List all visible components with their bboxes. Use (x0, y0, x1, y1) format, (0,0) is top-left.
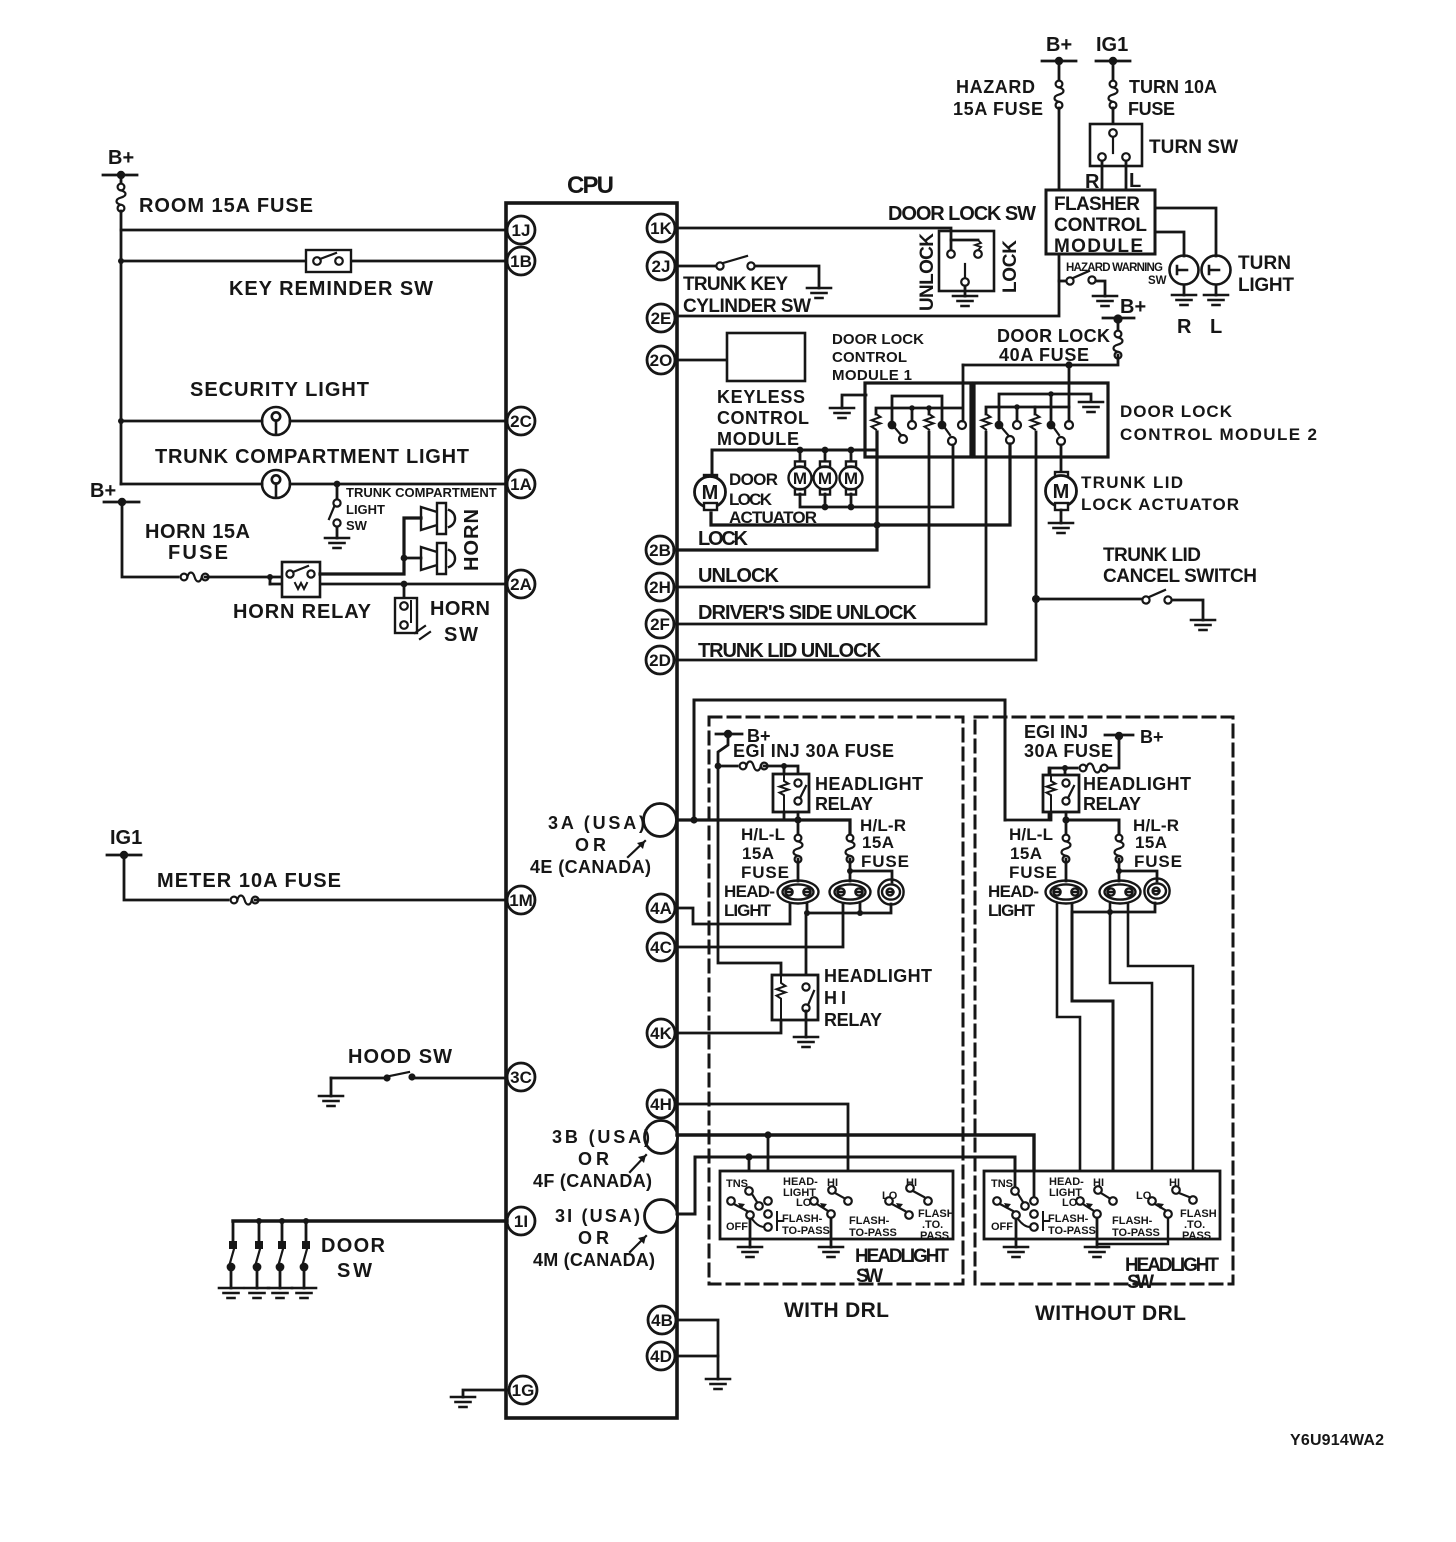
label FLASH-TO-PASS sw2 right (1180, 1208, 1217, 1242)
motor TRUNK LID LOCK ACTUATOR (1046, 472, 1077, 510)
headlight sw2 LO2 contact (1136, 1190, 1172, 1218)
label HEAD-LIGHT LO sw2 (1049, 1176, 1084, 1209)
connector circle 3B/4F (645, 1121, 678, 1154)
dashed box WITHOUT DRL (975, 717, 1233, 1284)
junction motor2 top (822, 447, 829, 454)
wire module2 rail A (999, 394, 1091, 420)
junction motor2 bottom (822, 504, 829, 511)
svg-text:OFF: OFF (991, 1221, 1013, 1233)
wire DRIVERS SIDE UNLOCK bus 2F (674, 432, 986, 624)
headlight sw2 HI2 contact (1169, 1177, 1197, 1204)
svg-text:4M (CANADA): 4M (CANADA) (533, 1250, 655, 1270)
svg-text:15A: 15A (1010, 844, 1042, 863)
svg-text:RELAY: RELAY (824, 1010, 882, 1030)
contact module2 feed x1069 (1065, 421, 1073, 429)
svg-text:HEADLIGHT: HEADLIGHT (815, 774, 923, 794)
node B+ door lock (1103, 296, 1146, 324)
motor door lock actuator 4 (840, 450, 863, 495)
svg-text:M: M (844, 469, 858, 488)
svg-text:DOOR LOCK SW: DOOR LOCK SW (888, 203, 1036, 225)
svg-text:FUSE: FUSE (1128, 99, 1175, 119)
svg-text:2C: 2C (510, 412, 532, 431)
fuse EGI INJ 30A box1 (718, 762, 768, 771)
relay HEADLIGHT RELAY box2 (1043, 774, 1191, 814)
ground headlight sw1 LO (819, 1247, 843, 1257)
svg-text:B+: B+ (1140, 727, 1164, 747)
junction horn2 branch (401, 555, 408, 562)
svg-text:EGI INJ: EGI INJ (1024, 722, 1088, 742)
svg-text:LO: LO (796, 1197, 812, 1209)
pin 2F (646, 610, 674, 638)
pin 1K (647, 214, 675, 242)
module DOOR LOCK CONTROL MODULE 1 box (865, 383, 971, 457)
svg-text:LIGHT: LIGHT (1238, 275, 1294, 296)
svg-text:IG1: IG1 (110, 827, 142, 849)
svg-text:1K: 1K (650, 219, 672, 238)
svg-text:L: L (1210, 316, 1222, 338)
svg-text:4A: 4A (650, 899, 672, 918)
label TURN LIGHT (1238, 253, 1294, 296)
svg-text:HOOD SW: HOOD SW (348, 1046, 452, 1068)
wire 1B branch (121, 260, 507, 263)
wire module2 rail B (986, 407, 1069, 414)
coil module2 relay2 (1031, 414, 1040, 430)
junction hi bus left box1 (804, 910, 810, 916)
wire sw2 LO2 stem to ground (1097, 1218, 1168, 1244)
wire sw1 LO ground stem (830, 1218, 833, 1247)
switch DOOR SW 2 (253, 1218, 263, 1288)
relay HORN RELAY (233, 562, 372, 623)
svg-text:HORN RELAY: HORN RELAY (233, 601, 372, 623)
pin 1B (507, 247, 535, 275)
wire module1 pin stub x929 (928, 408, 931, 414)
wire 3B tap to sw box1 (767, 1135, 770, 1197)
label 3A (USA) OR 4E (CANADA) (530, 813, 651, 877)
headlight sw1 HI contact (827, 1177, 852, 1205)
wire module1 rail A (892, 396, 942, 420)
svg-text:LOCK: LOCK (1000, 240, 1021, 293)
headlight lamp6 box2 (1144, 878, 1169, 903)
module KEYLESS CONTROL MODULE (717, 333, 809, 449)
svg-text:HEADLIGHT: HEADLIGHT (824, 966, 932, 986)
svg-text:SW: SW (1148, 275, 1167, 287)
junction trunk light sw tap (334, 481, 341, 488)
svg-text:DOOR LOCK: DOOR LOCK (832, 331, 924, 348)
wire 3A riser to top feed line (694, 700, 1005, 820)
svg-text:HAZARD: HAZARD (956, 77, 1035, 97)
svg-text:3C: 3C (510, 1068, 532, 1087)
wire module2 railA stub x1051 (1050, 394, 1053, 420)
wire 3I tap to sw box1 (748, 1157, 751, 1187)
svg-text:TRUNK LID UNLOCK: TRUNK LID UNLOCK (698, 640, 882, 662)
wire B+ jog to TNS rail (718, 734, 728, 766)
svg-text:TRUNK LID: TRUNK LID (1081, 473, 1183, 492)
wire 3I feed into sw2 TNS (1014, 1171, 1017, 1186)
pin 2J (647, 252, 675, 280)
pin 2O (647, 346, 675, 374)
wire hazard fuse to flasher (1058, 108, 1061, 190)
wire feed riser join box2 (1005, 768, 1049, 820)
svg-text:IG1: IG1 (1096, 34, 1128, 56)
svg-text:DOOR LOCK: DOOR LOCK (1120, 402, 1233, 421)
svg-text:LOCK: LOCK (698, 528, 749, 550)
pin 2B (646, 536, 674, 564)
label DOOR LOCK ACTUATOR (729, 470, 817, 527)
svg-text:TRUNK KEY: TRUNK KEY (683, 274, 788, 295)
connector circle 3I/4M (645, 1200, 678, 1233)
pin 4C (647, 933, 675, 961)
headlight sw2 HI contact (1093, 1177, 1117, 1205)
label 3I (USA) OR 4M (CANADA) (533, 1206, 655, 1270)
label DOOR LOCK CONTROL MODULE 2 (1120, 402, 1317, 444)
svg-text:2E: 2E (651, 309, 672, 328)
wire fuse to headlamp4 box2 (1065, 859, 1068, 881)
headlight sw2 TNS contact (991, 1178, 1029, 1210)
junction motor1 top (797, 447, 804, 454)
label FLASH-TO-PASS sw1 left (782, 1213, 830, 1237)
switch HORN SW (395, 584, 490, 646)
svg-text:FLASH-: FLASH- (782, 1213, 823, 1225)
pin 1I (507, 1207, 535, 1235)
svg-text:DOOR: DOOR (729, 470, 778, 489)
headlight sw1 pole column (752, 1197, 772, 1231)
junction module2 railA x1051 (1048, 391, 1054, 397)
wire 40A feed into module2 (1068, 365, 1071, 421)
pin 2D (646, 646, 674, 674)
wire sw1 TNS ground stem (749, 1219, 752, 1247)
svg-text:15A: 15A (862, 833, 894, 852)
svg-text:PASS: PASS (920, 1230, 949, 1242)
ground turn light R (1172, 295, 1196, 338)
wire 4B to ground (677, 1320, 718, 1379)
wire hi bus to hi relay box1 (805, 913, 808, 983)
connector circle 3A/4E (644, 804, 677, 837)
headlight sw1 OFF contact (726, 1197, 754, 1233)
wire relay outputs box2 (1051, 812, 1066, 838)
svg-text:EGI INJ 30A FUSE: EGI INJ 30A FUSE (733, 741, 894, 761)
switch HEADLIGHT SW box2 (984, 1171, 1220, 1239)
wire B+ down to fuse box2 (1104, 736, 1119, 768)
ground trunk compartment light sw (325, 538, 349, 548)
pin 2A (507, 570, 535, 598)
junction module2 railB x1017 (1014, 404, 1020, 410)
svg-text:FLASH-: FLASH- (1112, 1215, 1153, 1227)
junction trunk cancel tap (1032, 595, 1040, 603)
junction 3B tap box1 (764, 1131, 771, 1138)
pin 1M (507, 886, 535, 914)
headlight lamp5 box2 (1100, 881, 1141, 904)
svg-text:RELAY: RELAY (1083, 794, 1141, 814)
ground 1G (451, 1397, 475, 1407)
svg-text:3A (USA): 3A (USA) (548, 813, 645, 833)
svg-text:CANCEL SWITCH: CANCEL SWITCH (1103, 566, 1257, 587)
switch DOOR SW 3 (276, 1218, 286, 1288)
svg-text:H/L-L: H/L-L (741, 825, 785, 844)
ground trunk lid cancel switch (1191, 620, 1215, 630)
pin 4B (648, 1306, 676, 1334)
fuse HAZARD 15A FUSE (953, 61, 1064, 119)
junction 3I tap box1 (745, 1153, 752, 1160)
wire flasher to R turn light (1155, 232, 1184, 256)
svg-text:FUSE: FUSE (1134, 852, 1182, 871)
svg-text:4F (CANADA): 4F (CANADA) (533, 1171, 652, 1191)
label FLASH-TO-PASS sw2 left (1048, 1213, 1096, 1237)
wire module1 rail B (876, 408, 961, 414)
headlight lamp2 box1 (830, 881, 871, 904)
contact module1 feed x962 (958, 421, 966, 429)
wire 1K to door lock sw (677, 228, 951, 250)
node B+ box1 (716, 726, 771, 746)
wire 3B/4F bus (677, 1135, 1034, 1197)
svg-text:CONTROL: CONTROL (1054, 215, 1147, 236)
headlight sw2 pole column (1018, 1197, 1038, 1231)
svg-text:FLASH-: FLASH- (1048, 1213, 1089, 1225)
contact module1 relay2 (938, 421, 956, 445)
svg-text:TO-PASS: TO-PASS (782, 1225, 830, 1237)
svg-text:DOOR: DOOR (321, 1235, 386, 1257)
pin 3C (507, 1063, 535, 1091)
svg-text:15A: 15A (1135, 833, 1167, 852)
wire left vertical rail (120, 230, 123, 484)
svg-text:B+: B+ (90, 480, 116, 502)
wire 40A feed into module1 (962, 365, 965, 421)
wire fuse to headlight relay box1 (764, 766, 798, 779)
pin 1G (509, 1376, 537, 1404)
contact module2 relay2 (1047, 421, 1065, 445)
label DOOR SW (321, 1235, 386, 1282)
wire UNLOCK bus 2H (674, 432, 929, 587)
ground door sw 3 (268, 1288, 292, 1298)
motor door lock actuator 3 (814, 450, 837, 495)
wire motor top rail (712, 450, 876, 476)
svg-text:4H: 4H (650, 1095, 672, 1114)
coil module1 unlock relay (925, 414, 934, 430)
label HEADLIGHT SW box1 (855, 1246, 949, 1287)
svg-text:TURN 10A: TURN 10A (1129, 77, 1217, 97)
switch TRUNK COMPARTMENT LIGHT SW (329, 484, 497, 538)
node B+ box2 (1105, 727, 1164, 747)
headlight sw1 HI2 contact (906, 1177, 932, 1205)
svg-text:SECURITY LIGHT: SECURITY LIGHT (190, 379, 369, 401)
wire fuse to headlamp1 box1 (797, 859, 800, 881)
svg-text:TURN SW: TURN SW (1149, 137, 1238, 158)
svg-text:DRIVER'S SIDE UNLOCK: DRIVER'S SIDE UNLOCK (698, 602, 918, 624)
switch DOOR LOCK SW (888, 203, 1036, 296)
headlight lamp4 box2 (1046, 881, 1087, 904)
wire fuse to headlamp2 and 3 box1 (850, 859, 892, 882)
wire B+ to 1J (121, 211, 507, 230)
svg-text:2D: 2D (649, 651, 671, 670)
junction hi bus mid box1 (857, 910, 863, 916)
svg-text:1G: 1G (512, 1381, 535, 1400)
contact module2 pole x1017 (1013, 421, 1021, 429)
junction horn coil tap (267, 574, 273, 580)
svg-text:1I: 1I (514, 1212, 528, 1231)
wire 4H to headlight sw HI (677, 1104, 848, 1197)
svg-text:LIGHT: LIGHT (724, 901, 772, 920)
svg-text:HEADLIGHT: HEADLIGHT (855, 1246, 949, 1267)
wire turn sw R to flasher (1101, 161, 1104, 190)
svg-text:B+: B+ (108, 147, 134, 169)
wire TNS rail down (718, 766, 781, 975)
module DOOR LOCK CONTROL MODULE 2 box (974, 383, 1108, 457)
wire 1A trunk light (121, 483, 507, 486)
ground door lock sw (953, 296, 977, 306)
svg-text:MODULE: MODULE (717, 429, 799, 449)
wire fuse to headlamp5 and 6 box2 (1119, 859, 1157, 881)
node B+ top-left (103, 147, 137, 182)
wire fuse to relay feed box2 (1050, 768, 1077, 775)
svg-text:OFF: OFF (726, 1221, 748, 1233)
svg-text:LOCK ACTUATOR: LOCK ACTUATOR (1081, 495, 1239, 514)
svg-text:FUSE: FUSE (1009, 863, 1057, 882)
svg-text:TO-PASS: TO-PASS (849, 1227, 897, 1239)
svg-text:M: M (1053, 481, 1070, 503)
lamp SECURITY LIGHT (190, 379, 369, 435)
svg-text:1A: 1A (510, 475, 532, 494)
junction left rail 2C (118, 418, 124, 424)
wire sw2 TNS ground stem (1015, 1219, 1018, 1247)
svg-text:2A: 2A (510, 575, 532, 594)
pin 4D (647, 1342, 675, 1370)
wire fuse to 1M (255, 899, 507, 902)
ground turn light L (1204, 295, 1228, 338)
svg-text:M: M (793, 469, 807, 488)
svg-text:MODULE: MODULE (1054, 236, 1143, 257)
svg-text:HI: HI (824, 988, 846, 1008)
svg-text:TRUNK COMPARTMENT LIGHT: TRUNK COMPARTMENT LIGHT (155, 446, 469, 468)
svg-text:TNS: TNS (991, 1178, 1013, 1190)
svg-text:ROOM 15A FUSE: ROOM 15A FUSE (139, 195, 313, 217)
svg-text:CONTROL: CONTROL (717, 408, 809, 428)
headlight lamp1 box1 (778, 881, 819, 904)
svg-text:HORN: HORN (461, 509, 483, 571)
wire trunk actuator to ground (1060, 510, 1063, 523)
relay HEADLIGHT HI RELAY (772, 966, 932, 1030)
wire lamp5 low to sw LO2 box2 (1110, 904, 1152, 1197)
label DOOR LOCK CONTROL MODULE 1 (832, 331, 924, 384)
wire coil drop to 2A line (269, 577, 272, 584)
motor door lock actuator 2 (789, 450, 812, 495)
junction motor3 top (848, 447, 855, 454)
svg-text:SW: SW (444, 624, 478, 646)
switch DOOR SW 1 (227, 1221, 237, 1288)
module FLASHER CONTROL MODULE (1046, 190, 1155, 257)
wire lamp2 hi stub box1 (859, 904, 862, 913)
wire 4K to hi relay coil (677, 1020, 781, 1033)
junction motor3 bottom (848, 504, 855, 511)
turn light L (1202, 256, 1231, 285)
switch DOOR SW 4 (300, 1218, 310, 1288)
wire 4D join (677, 1355, 718, 1358)
switch TRUNK LID CANCEL SWITCH (1036, 545, 1257, 620)
svg-text:LIGHT: LIGHT (988, 901, 1036, 920)
label HEAD-LIGHT box1 (724, 882, 775, 920)
svg-text:SW: SW (1127, 1272, 1154, 1293)
fuse ROOM 15A FUSE (117, 184, 314, 217)
horn speaker 1 (421, 503, 455, 534)
svg-text:HORN 15A: HORN 15A (145, 521, 250, 543)
headlight sw1 TNS contact (726, 1178, 763, 1210)
junction relay coil tap box1 (781, 763, 787, 769)
wire 1G ground (463, 1390, 509, 1397)
junction module1 railB x912 (909, 405, 915, 411)
junction relay contact lamp bus box1 (794, 816, 801, 823)
fuse TURN 10A FUSE (1109, 61, 1218, 119)
svg-text:4B: 4B (651, 1311, 673, 1330)
wire sw2 LO ground stem (1096, 1218, 1099, 1247)
svg-text:1M: 1M (509, 891, 533, 910)
labels R L turn sw (1085, 170, 1141, 193)
svg-text:TO-PASS: TO-PASS (1048, 1225, 1096, 1237)
wire fuse to horn relay (205, 576, 289, 579)
wire L lamp to ground (1215, 285, 1218, 295)
ground module2 internal (1079, 402, 1103, 412)
pin 2E (647, 304, 675, 332)
label FLASH-TO-PASS sw2 mid (1112, 1215, 1160, 1239)
wire 40A fuse feed to modules (963, 355, 1118, 365)
node IG1 turn (1096, 34, 1130, 65)
svg-text:KEYLESS: KEYLESS (717, 387, 805, 407)
wire hi feed to sw HI box2 (1072, 912, 1113, 1197)
svg-text:METER 10A FUSE: METER 10A FUSE (157, 870, 341, 892)
wire coil stub box1 (783, 766, 786, 775)
svg-text:FLASHER: FLASHER (1054, 194, 1140, 215)
fuse DOOR LOCK 40A FUSE (997, 319, 1123, 365)
switch HOOD SW (331, 1046, 507, 1096)
fuse H/L-R 15A box2 (1115, 816, 1183, 871)
wire lamp feed bus box2 (1066, 820, 1119, 838)
svg-text:15A: 15A (742, 844, 774, 863)
wire 1I door switch bus (233, 1219, 507, 1222)
wire trunk actuator feed (1060, 445, 1063, 474)
wire relay to horns (320, 518, 421, 574)
pin 4H (647, 1090, 675, 1118)
wire IG1 to meter fuse (124, 855, 228, 900)
svg-text:SW: SW (337, 1260, 372, 1282)
wire 4C to headlamp2 low (677, 904, 843, 947)
svg-text:H/L-L: H/L-L (1009, 825, 1053, 844)
wire 2C security light (121, 420, 507, 423)
wire headlamp hi bus box1 (807, 904, 891, 913)
svg-text:UNLOCK: UNLOCK (698, 565, 780, 587)
wire turn fuse to turn sw (1112, 108, 1115, 129)
wire 2O to keyless module (677, 359, 727, 362)
svg-text:FLASH-: FLASH- (849, 1215, 890, 1227)
wire lamp4 low to sw LO box2 (1057, 904, 1080, 1197)
svg-text:HEAD-: HEAD- (724, 882, 775, 901)
svg-text:FUSE: FUSE (861, 852, 909, 871)
svg-text:CPU: CPU (567, 172, 614, 199)
wire horn2 branch (404, 557, 421, 560)
svg-text:CYLINDER SW: CYLINDER SW (683, 296, 811, 317)
svg-text:15A FUSE: 15A FUSE (953, 99, 1043, 119)
svg-text:CONTROL: CONTROL (832, 349, 907, 366)
ground door sw 2 (245, 1288, 269, 1298)
fuse HORN 15A FUSE (145, 521, 250, 582)
fuse H/L-R 15A box1 (846, 816, 910, 871)
svg-text:40A FUSE: 40A FUSE (999, 345, 1089, 365)
svg-text:4C: 4C (650, 938, 672, 957)
wire 3A/4E feed (677, 820, 850, 838)
ground headlight sw2 TNS (1004, 1247, 1028, 1257)
contact module1 pole x912 (908, 421, 916, 429)
wire module2 pin stub x1017 (1016, 407, 1019, 420)
wire module1 pin stub x912 (911, 408, 914, 420)
ground headlight hi relay (794, 1037, 818, 1047)
wire LOCK bus 2B (674, 432, 877, 550)
junction lock bus x877 (873, 521, 880, 528)
